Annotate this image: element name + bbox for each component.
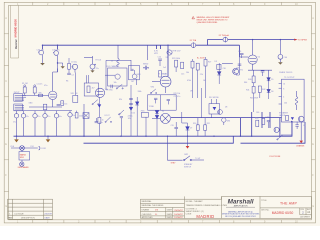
bias cluster x255-275	[256, 118, 270, 128]
input jack J2	[14, 104, 24, 111]
red arrow to speakers	[294, 39, 297, 41]
junction dots on buses	[16, 39, 281, 137]
aux vertical x241	[238, 57, 242, 75]
mains lamp NE1	[20, 146, 25, 151]
coil L1	[117, 45, 119, 66]
pilot tube V3	[152, 113, 170, 123]
wire speaker L	[281, 122, 292, 135]
svg-text:INPUT: INPUT	[14, 92, 21, 94]
svg-text:F3 HT FUSE: F3 HT FUSE	[270, 156, 282, 158]
svg-text:F1 T2A: F1 T2A	[190, 39, 197, 42]
psu diode bridge a	[129, 85, 133, 136]
svg-text:100: 100	[284, 103, 287, 105]
svg-text:R1 1M: R1 1M	[22, 83, 28, 85]
svg-text:CODE: CODE	[186, 214, 192, 216]
title block red entries	[155, 210, 183, 220]
wire input to grid	[22, 94, 48, 96]
cap C45 branch	[295, 122, 298, 129]
filter cap bank: C60	[14, 111, 18, 137]
svg-text:D3: D3	[215, 61, 217, 63]
svg-text:DATE: DATE	[167, 216, 173, 219]
filter cap C62	[33, 111, 37, 137]
cap cluster right of fuse	[240, 54, 244, 59]
svg-text:22u: 22u	[47, 116, 50, 118]
footswitch labels	[105, 114, 133, 120]
ground mid stem	[47, 136, 49, 139]
svg-text:C2: C2	[71, 74, 73, 76]
wire x84 drop to bus	[83, 104, 85, 136]
capacitor C5 electrolytic mid	[84, 56, 96, 70]
red warning note triangle	[192, 16, 195, 19]
send cap	[143, 66, 149, 70]
svg-text:22u: 22u	[96, 68, 99, 70]
switch bias	[277, 135, 283, 140]
svg-text:D5: D5	[271, 79, 273, 81]
svg-text:HTR 6.3V: HTR 6.3V	[173, 51, 182, 53]
diode D5	[267, 78, 271, 90]
wire drop d3	[261, 112, 263, 128]
svg-text:DRG No.: DRG No.	[261, 210, 270, 212]
wire ground bus main	[14, 122, 293, 136]
ground (C5)	[90, 70, 94, 72]
standby labels blue	[184, 154, 201, 168]
svg-text:10/06/97: 10/06/97	[174, 214, 183, 216]
svg-text:VR3: VR3	[137, 74, 141, 76]
svg-text:MADRID: MADRID	[196, 214, 214, 219]
filter cap C64	[54, 111, 58, 137]
regulator box	[141, 112, 148, 136]
svg-text:REV: REV	[8, 218, 13, 220]
svg-text:RL2 MODE: RL2 MODE	[209, 97, 219, 99]
svg-text:Marshall: Marshall	[16, 39, 18, 49]
ground (bus left)	[14, 139, 19, 142]
svg-text:SW2: SW2	[184, 154, 188, 156]
switch SW gain	[92, 100, 99, 105]
wire bus lower right	[241, 122, 306, 143]
standby feed wire	[168, 136, 183, 160]
wire HT rail to speaker arrow	[228, 39, 295, 41]
T2 pin labels	[283, 84, 285, 99]
svg-text:R27: R27	[208, 61, 211, 63]
resistor R40	[252, 76, 255, 86]
wire V1 anode feed	[167, 45, 169, 76]
svg-text:TITLE: TITLE	[261, 200, 267, 202]
svg-text:RL1 CHANNEL: RL1 CHANNEL	[107, 65, 120, 68]
resistor R1	[23, 85, 26, 96]
svg-text:R50: R50	[255, 118, 258, 120]
svg-text:C46: C46	[256, 112, 259, 114]
box x73-78 lower	[73, 91, 78, 102]
svg-text:R23 100k: R23 100k	[172, 58, 180, 60]
svg-text:MATERIAL: MATERIAL	[142, 200, 153, 203]
svg-text:16: 16	[283, 84, 285, 86]
svg-text:T2 OUTPUT: T2 OUTPUT	[284, 77, 295, 79]
wire ground bus lower	[84, 136, 234, 143]
speaker jack labels	[279, 112, 289, 118]
svg-text:22k: 22k	[200, 74, 203, 76]
psu diode bridge b	[135, 97, 139, 136]
wire HT rail left	[43, 44, 192, 46]
svg-text:QUALIFIED PERSONNEL: QUALIFIED PERSONNEL	[197, 21, 218, 24]
svg-text:JACKS: JACKS	[279, 114, 286, 117]
B+ network labels	[186, 72, 203, 76]
heater labels	[154, 51, 168, 60]
svg-text:C47: C47	[266, 116, 269, 118]
capacitor Ck	[57, 105, 61, 106]
right caps x158-162	[158, 59, 162, 77]
filter cap C61	[21, 111, 25, 137]
resistor pair x197 x205	[197, 118, 207, 137]
svg-text:C1 22n: C1 22n	[37, 83, 43, 85]
svg-text:C33 47u: C33 47u	[37, 49, 45, 51]
tube V2a triode	[49, 72, 57, 100]
svg-text:F2 T500mA: F2 T500mA	[219, 34, 230, 37]
svg-text:C51: C51	[238, 51, 241, 53]
ground left stem	[16, 136, 18, 139]
wire cap drop C33	[42, 45, 44, 49]
svg-text:R42: R42	[262, 89, 265, 91]
resistor stack labels	[246, 89, 265, 91]
standby switch	[184, 156, 205, 161]
svg-text:AMPLIFICATION: AMPLIFICATION	[234, 204, 248, 207]
svg-text:DRAKE 784-139: DRAKE 784-139	[279, 71, 292, 74]
red chassis ground right	[296, 141, 305, 148]
fuse F2	[223, 37, 228, 43]
svg-text:G: G	[312, 205, 314, 208]
wire drop d1	[239, 118, 241, 137]
right caps labels	[158, 57, 166, 76]
resistor stack x252-262 low	[252, 86, 261, 112]
svg-text:D6: D6	[271, 91, 273, 93]
svg-text:R41: R41	[246, 89, 249, 91]
filter cap C63	[43, 111, 47, 137]
resistor pair labels	[193, 123, 210, 125]
PSU box with X	[83, 113, 89, 137]
input jack J1	[14, 94, 26, 102]
svg-text:1k5: 1k5	[64, 103, 67, 105]
ground (right cap)	[278, 62, 283, 64]
pot cluster labels	[131, 74, 140, 83]
svg-text:DATE: DATE	[167, 213, 173, 216]
diode D6	[267, 89, 271, 99]
svg-text:HTR: HTR	[154, 53, 159, 55]
cap pair x176	[174, 122, 178, 136]
wire vertical x147.5	[147, 45, 149, 60]
svg-text:V1 ECC83: V1 ECC83	[158, 73, 167, 75]
capacitor C33 (top-left can)	[38, 50, 44, 55]
wire C34 down	[57, 55, 59, 72]
switch footswitch cluster	[105, 117, 112, 122]
svg-text:FOOT: FOOT	[105, 115, 111, 117]
svg-text:4k7: 4k7	[92, 88, 95, 90]
wire anode V2a up	[53, 69, 58, 73]
svg-text:R38: R38	[236, 75, 239, 77]
svg-text:1W: 1W	[190, 91, 193, 93]
resistor Ra1	[175, 60, 178, 72]
svg-text:47u: 47u	[26, 116, 29, 118]
resistor Rk box	[43, 104, 46, 110]
tube V2b lower	[95, 88, 104, 97]
side label: MADRID 60/30 red vertical text	[14, 19, 18, 49]
capacitor C34 (second can)	[53, 51, 59, 56]
FX switch mid	[119, 110, 124, 115]
svg-text:VR1 1M: VR1 1M	[71, 93, 78, 95]
diode D7 LED	[186, 123, 190, 130]
mains connector	[39, 146, 40, 150]
svg-text:22u: 22u	[37, 116, 40, 118]
svg-text:R31: R31	[207, 123, 210, 125]
svg-text:DESCRIPTION: DESCRIPTION	[21, 218, 35, 220]
svg-text:47u: 47u	[13, 121, 16, 123]
svg-text:470k: 470k	[187, 80, 191, 82]
svg-text:C21 47n: C21 47n	[174, 96, 181, 98]
svg-text:APPROVED: APPROVED	[142, 216, 154, 219]
wire B+ line to OT	[171, 117, 282, 119]
svg-text:MADRID 60/30: MADRID 60/30	[14, 19, 18, 38]
transistor TR2 right	[298, 116, 304, 122]
svg-text:THE AMP: THE AMP	[280, 201, 298, 205]
svg-text:V4: V4	[258, 56, 260, 58]
resistor R4 right	[61, 101, 64, 106]
switch mid SW3	[150, 89, 156, 94]
aux labels x241	[236, 68, 239, 77]
svg-text:DATE: DATE	[167, 209, 173, 212]
svg-text:FS1: FS1	[31, 146, 34, 148]
aux vertical x75	[74, 73, 76, 92]
switch under RL2	[218, 110, 223, 115]
red warning note text	[197, 16, 231, 24]
svg-text:C40: C40	[284, 57, 287, 59]
svg-text:C15: C15	[181, 74, 184, 76]
OT diode	[291, 117, 294, 120]
wire heater tap 2	[160, 45, 162, 49]
wire V2a cathode down	[52, 100, 54, 108]
tone box cap2	[167, 99, 170, 104]
svg-text:STBY: STBY	[171, 163, 177, 165]
svg-text:MADRID 60/30: MADRID 60/30	[272, 211, 294, 215]
svg-text:GND: GND	[29, 102, 34, 104]
svg-text:CHECKED: CHECKED	[142, 214, 152, 216]
resistor box x87 lower	[84, 75, 98, 96]
fuse F1 mains	[191, 42, 196, 48]
aux vertical x86	[86, 75, 88, 83]
resistor R2	[33, 85, 43, 97]
tube heater circle	[167, 50, 172, 55]
svg-text:1n5: 1n5	[163, 67, 166, 69]
wire heater tap 1	[156, 45, 158, 49]
title block small gray texts	[142, 200, 312, 219]
svg-text:10k: 10k	[114, 82, 117, 84]
cathode network wire	[29, 106, 62, 108]
svg-text:C30: C30	[223, 68, 226, 70]
mains switch box	[19, 150, 30, 162]
svg-text:R7 10k: R7 10k	[96, 60, 102, 62]
wire drop d5	[279, 118, 281, 137]
svg-text:T1: T1	[162, 111, 164, 113]
send/return labels	[143, 64, 149, 71]
svg-text:1M: 1M	[131, 81, 134, 83]
svg-text:23/05/97: 23/05/97	[44, 214, 53, 216]
svg-text:SW1: SW1	[20, 157, 24, 159]
left HT distribution wire	[14, 110, 72, 112]
bias cluster labels	[255, 116, 269, 120]
svg-text:D: D	[5, 111, 7, 114]
pot cluster x130-140	[130, 60, 137, 85]
wire drop d4	[269, 112, 271, 128]
svg-text:4: 4	[283, 97, 284, 99]
svg-text:SWITCH: SWITCH	[184, 166, 192, 168]
svg-text:VR6: VR6	[227, 120, 231, 122]
svg-text:MODEL: THE AMP: MODEL: THE AMP	[186, 200, 204, 203]
tone box lower right	[148, 95, 177, 110]
relay box RL1	[105, 60, 131, 89]
svg-text:MK1 1DQ ENGLAND TEL 01908 3754: MK1 1DQ ENGLAND TEL 01908 375411	[225, 215, 256, 218]
svg-text:D: D	[312, 111, 314, 114]
left coupling components column x62	[67, 58, 71, 74]
psu diode pair right	[155, 110, 159, 136]
tube V1 center	[152, 76, 171, 93]
wire TR2 to ground	[300, 122, 302, 141]
svg-text:R45 470R: R45 470R	[250, 98, 259, 100]
pot right of RL2	[222, 118, 226, 125]
svg-text:DRAWN: DRAWN	[142, 209, 150, 212]
box x217 upper	[217, 64, 221, 69]
tube V4 top right	[240, 40, 258, 70]
T2 winding	[295, 91, 298, 110]
svg-text:R6: R6	[66, 81, 68, 83]
T2 left pins	[279, 83, 282, 104]
title block	[140, 196, 311, 218]
wire cap drop C34	[57, 45, 59, 49]
ground (bus mid)	[46, 139, 51, 142]
svg-text:DS: DS	[155, 210, 159, 212]
svg-text:240V MAINS: 240V MAINS	[18, 166, 30, 169]
box around VR3	[129, 65, 140, 79]
small box x76 psu	[75, 111, 78, 118]
svg-text:D8: D8	[225, 106, 227, 108]
mains switch red text	[20, 153, 27, 158]
transistor TR3	[274, 127, 279, 132]
B+ resistor network	[191, 57, 207, 118]
wire bias to driver	[222, 62, 233, 64]
svg-text:V1: V1	[166, 57, 168, 59]
wire HT rail right	[208, 40, 223, 46]
relay box RL2	[209, 99, 220, 118]
svg-text:D7: D7	[190, 128, 192, 130]
svg-text:68k: 68k	[39, 92, 42, 94]
svg-text:C9 47n: C9 47n	[143, 68, 149, 70]
svg-text:SPEAKER: SPEAKER	[279, 112, 289, 115]
svg-text:1st ISSUE: 1st ISSUE	[14, 213, 24, 216]
svg-text:L1: L1	[111, 61, 113, 63]
svg-text:C10: C10	[158, 57, 161, 59]
svg-text:G: G	[5, 205, 7, 208]
FX column x99	[98, 97, 101, 136]
wire C33 to ground	[42, 55, 44, 63]
svg-text:8: 8	[283, 88, 284, 90]
switch under relay	[111, 84, 123, 89]
svg-text:MATERIAL THICKNESS: MATERIAL THICKNESS	[142, 204, 164, 207]
svg-text:R44: R44	[244, 82, 247, 84]
svg-text:D10: D10	[132, 112, 135, 114]
svg-text:220k: 220k	[79, 116, 83, 118]
wire drop d2	[251, 112, 253, 136]
Marshall logo script	[222, 199, 260, 218]
svg-text:330k: 330k	[138, 91, 142, 93]
svg-text:C3 22u: C3 22u	[71, 62, 77, 64]
svg-text:CON1: CON1	[41, 148, 46, 150]
OT bottom cluster	[286, 115, 289, 120]
svg-text:VR4: VR4	[151, 87, 155, 89]
svg-text:DATE: DATE	[45, 217, 51, 220]
small cap pair x121	[120, 117, 123, 137]
svg-text:7805: 7805	[141, 110, 145, 112]
driver network horizontal	[248, 70, 272, 77]
junction speaker	[291, 121, 293, 123]
svg-text:R9 470k: R9 470k	[106, 89, 113, 91]
svg-text:TONE: TONE	[149, 106, 155, 108]
extra scattered value labels	[29, 51, 288, 114]
svg-text:C4: C4	[61, 103, 63, 105]
mains input wire	[11, 147, 38, 149]
filter cap C65	[68, 111, 72, 137]
cap + ground right x280	[278, 40, 283, 63]
svg-text:C: C	[5, 80, 7, 83]
svg-text:R30: R30	[193, 123, 196, 125]
svg-text:SEND: SEND	[143, 64, 149, 66]
svg-text:10u: 10u	[72, 115, 75, 117]
svg-text:TO SPKR: TO SPKR	[298, 40, 308, 42]
mains lamp NE2	[20, 162, 24, 166]
svg-text:10k: 10k	[186, 72, 189, 74]
ground (C33)	[40, 63, 45, 65]
transistor TR1	[233, 68, 239, 74]
capacitor C41	[261, 71, 265, 76]
label column box top-left	[11, 5, 19, 58]
svg-text:12/06/97: 12/06/97	[174, 217, 183, 219]
svg-text:TR1: TR1	[239, 69, 243, 71]
PSU cap x96	[95, 118, 99, 123]
svg-text:1k: 1k	[102, 120, 104, 122]
svg-text:CHASSIS: CHASSIS	[296, 145, 305, 148]
relay RL1 labels	[107, 65, 120, 84]
svg-text:C34 47u: C34 47u	[52, 49, 60, 51]
wire D7 to red ground	[187, 130, 189, 146]
svg-text:82k: 82k	[119, 99, 122, 101]
svg-text:C: C	[312, 80, 314, 83]
diode D3	[217, 63, 221, 84]
svg-text:23/05/97: 23/05/97	[174, 210, 183, 212]
wire into D7	[182, 112, 188, 123]
svg-text:TRANSFORMERS: DRAKE/DAGNALL 0.: TRANSFORMERS: DRAKE/DAGNALL 0.7MM	[186, 204, 228, 207]
svg-text:TO HT: TO HT	[195, 158, 201, 160]
resistor Ra2	[181, 62, 184, 68]
svg-text:R40: R40	[248, 79, 251, 81]
FX column diode	[98, 104, 102, 107]
svg-text:10u: 10u	[59, 116, 62, 118]
svg-text:A3 SHEET: A3 SHEET	[300, 216, 310, 219]
capacitor C can x75	[72, 64, 77, 72]
revision table bottom-left	[8, 199, 53, 219]
svg-text:C20: C20	[171, 125, 174, 127]
output transformer T2 box	[282, 79, 305, 122]
red chassis ground center	[186, 146, 190, 149]
